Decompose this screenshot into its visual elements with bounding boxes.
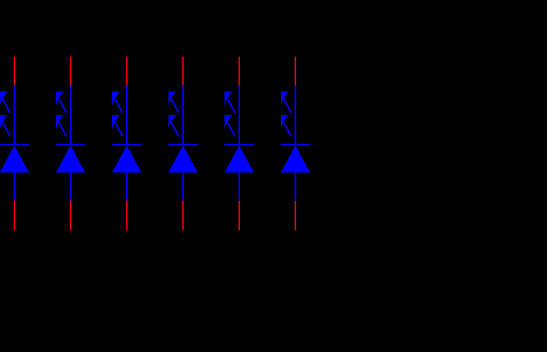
wire: LED D1 anode lead (blue): [13, 86, 15, 146]
wire: top red wire segment, column 4: [182, 57, 184, 86]
LED D3 diode triangle: [112, 145, 141, 172]
LED D3 emission arrow lower shaft: [115, 122, 123, 136]
wire: LED D4 cathode lead (blue): [182, 173, 184, 201]
wire: LED D2 cathode lead (blue): [70, 173, 72, 201]
LED D6 cathode bar: [281, 144, 310, 146]
LED D4 emission arrow upper head: [168, 92, 175, 106]
LED D3 cathode bar: [112, 144, 141, 146]
LED D5 emission arrow upper shaft: [227, 99, 235, 113]
wire: bottom red wire segment, column 6: [294, 201, 296, 231]
LED D4 emission arrow lower head: [168, 115, 175, 129]
LED D4 diode triangle: [168, 145, 197, 172]
wire: bottom red wire segment, column 4: [182, 201, 184, 231]
LED D6 emission arrow lower head: [281, 115, 288, 129]
wire: LED D5 anode lead (blue): [238, 86, 240, 146]
LED D6 emission arrow lower shaft: [283, 122, 291, 136]
LED D4 cathode bar: [168, 144, 197, 146]
wire: LED D6 cathode lead (blue): [294, 173, 296, 201]
wire: bottom red wire segment, column 5: [238, 201, 240, 231]
wire: LED D6 anode lead (blue): [294, 86, 296, 146]
LED D1 emission arrow lower head: [0, 115, 7, 129]
wire: top red wire segment, column 6: [294, 57, 296, 86]
LED D5 emission arrow upper head: [225, 92, 232, 106]
LED D4 emission arrow upper shaft: [171, 99, 179, 113]
wire: top red wire segment, column 2: [70, 57, 72, 86]
LED D5 emission arrow lower shaft: [227, 122, 235, 136]
wire: top red wire segment, column 5: [238, 57, 240, 86]
wire: bottom red wire segment, column 1: [13, 201, 15, 231]
LED D6 diode triangle: [281, 145, 310, 172]
wire: LED D3 anode lead (blue): [126, 86, 128, 146]
wire: top red wire segment, column 1: [13, 57, 15, 86]
wire: LED D4 anode lead (blue): [182, 86, 184, 146]
LED D3 emission arrow upper shaft: [115, 99, 123, 113]
LED D5 emission arrow lower head: [225, 115, 232, 129]
LED D2 cathode bar: [56, 144, 85, 146]
LED D6 emission arrow upper head: [281, 92, 288, 106]
wire: LED D1 cathode lead (blue): [13, 173, 15, 201]
LED D2 emission arrow lower shaft: [59, 122, 67, 136]
LED D6 emission arrow upper shaft: [283, 99, 291, 113]
wire: LED D3 cathode lead (blue): [126, 173, 128, 201]
LED D1 diode triangle: [0, 145, 29, 172]
wire: LED D2 anode lead (blue): [70, 86, 72, 146]
wire: top red wire segment, column 3: [126, 57, 128, 86]
LED D4 emission arrow lower shaft: [171, 122, 179, 136]
LED D1 emission arrow upper shaft: [2, 99, 10, 113]
LED D5 cathode bar: [225, 144, 254, 146]
LED D1 emission arrow upper head: [0, 92, 7, 106]
wire: LED D5 cathode lead (blue): [238, 173, 240, 201]
LED D1 emission arrow lower shaft: [2, 122, 10, 136]
LED D3 emission arrow lower head: [112, 115, 119, 129]
LED D2 emission arrow upper shaft: [59, 99, 67, 113]
LED D1 cathode bar: [0, 144, 29, 146]
LED D3 emission arrow upper head: [112, 92, 119, 106]
LED D2 emission arrow upper head: [56, 92, 63, 106]
LED D5 diode triangle: [225, 145, 254, 172]
LED D2 diode triangle: [56, 145, 85, 172]
wire: bottom red wire segment, column 2: [70, 201, 72, 231]
LED D2 emission arrow lower head: [56, 115, 63, 129]
wire: bottom red wire segment, column 3: [126, 201, 128, 231]
